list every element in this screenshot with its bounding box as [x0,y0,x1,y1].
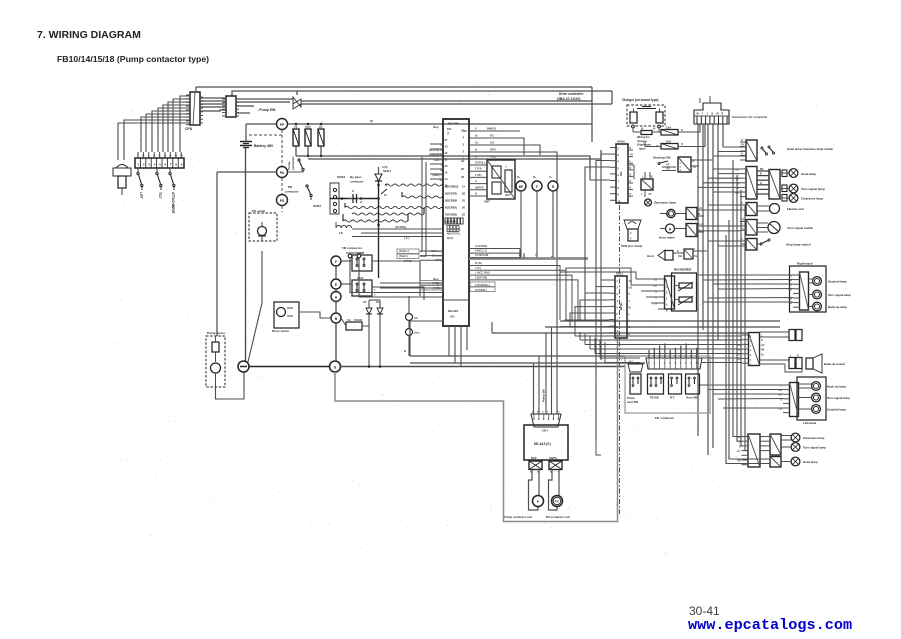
lamp stop-tail R [813,277,822,286]
wire pump motor lead [216,172,218,336]
svg-text:PS mode: PS mode [252,209,266,213]
svg-text:Bw: Bw [557,412,561,414]
wire bundle v9 [740,190,743,446]
svg-text:Back-up lamp: Back-up lamp [827,385,846,389]
svg-text:(SCR5K): (SCR5K) [395,225,406,229]
stop lamp switch [760,243,762,245]
wire [410,321,443,356]
coil wavy3 [345,206,443,208]
charger part2 [656,112,663,123]
device CF [406,314,413,321]
DH pins left [610,147,616,149]
wire [195,87,197,92]
wire harness CPU-left [180,96,190,152]
wire bus [560,320,780,322]
svg-text:5(SCR3)B: 5(SCR3)B [445,199,457,203]
FR switch RF [669,374,682,394]
svg-text:Br: Br [384,193,387,197]
svg-text:W(REO: W(REO [475,185,484,189]
wire [591,87,593,142]
wire [644,172,646,179]
svg-text:PP: PP [280,123,285,127]
svg-text:Y (F): Y (F) [475,266,481,270]
wire bundle v1 [697,124,699,436]
contactor PP [277,119,288,130]
svg-text:Back-up lamp: Back-up lamp [828,305,847,309]
svg-text:Clearance lamp: Clearance lamp [803,436,825,440]
wire [430,143,443,145]
wire bundle v8 [737,175,742,441]
svg-text:F: F [536,185,538,189]
svg-text:1T(E): 1T(E) [475,173,482,177]
svg-text:By-pass: By-pass [350,175,362,179]
contact box MCF [352,255,372,271]
svg-text:Flasher unit: Flasher unit [787,207,804,211]
svg-text:L6: L6 [339,231,343,235]
connector CN1 [531,414,561,427]
wire bus [575,335,742,337]
svg-text:→Pump SW.: →Pump SW. [256,108,276,112]
wire [519,249,521,259]
terminal G [330,361,341,372]
svg-text:CF: CF [414,316,418,320]
wire [200,110,226,111]
wire [538,470,540,497]
svg-text:ATTACHMENT: ATTACHMENT [171,192,175,214]
wire [596,440,601,455]
svg-text:7(SCR2B): 7(SCR2B) [445,213,457,217]
svg-text:9(X2): 9(X2) [447,236,453,240]
svg-text:BP(W): BP(W) [617,140,625,144]
lamp head B [791,457,800,466]
pcb box [628,229,638,241]
relay starting [678,157,691,172]
svg-text:TILT: TILT [158,192,162,199]
svg-text:Accelerator: Accelerator [674,268,692,272]
svg-text:SCR3: SCR3 [337,175,345,179]
svg-text:Pump SW.: Pump SW. [542,389,546,402]
wire [341,260,352,262]
svg-text:D2: D2 [363,300,367,304]
svg-text:GB: GB [629,287,633,290]
svg-text:Head lamp clearance lamp swi: Head lamp clearance lamp switch [787,147,833,151]
wire [301,100,592,102]
svg-text:Horn: Horn [647,254,654,258]
wire [760,331,790,333]
lamp clearance B [791,433,800,442]
svg-text:YB: YB [629,280,633,283]
contact [306,185,308,187]
svg-text:B: B [475,155,477,159]
svg-text:B: B [741,153,743,156]
svg-text:9(SCR3K)2: 9(SCR3K)2 [445,185,459,189]
wire [469,164,487,166]
svg-text:M(SCR7A): M(SCR7A) [447,231,460,235]
wire into IC [352,228,443,230]
wire negative bus [245,148,247,361]
svg-text:contactor: contactor [350,180,365,184]
IC bottom labels [443,299,469,301]
svg-text:D: D [630,180,632,183]
wire [648,350,650,358]
svg-text:Ov: Ov [475,141,479,145]
wire [236,98,293,100]
box accelerator [672,273,697,311]
wire [200,106,226,108]
svg-text:ISP1: ISP1 [490,148,497,152]
svg-text:LIFT: LIFT [139,192,143,199]
wire [232,91,612,96]
wire [549,470,558,511]
connector CPU [190,92,200,125]
IC main controller [443,119,469,326]
wire [196,86,592,88]
svg-text:B+: B+ [517,175,521,179]
lamp backup R [813,302,822,311]
wire [780,172,789,174]
wire [633,165,635,179]
lamp head [782,170,787,177]
lamp backup L [812,382,821,391]
svg-text:MCR: MCR [357,276,363,280]
connector bottom pair [748,434,760,467]
wire bus [545,326,780,328]
svg-text:Operation lamp: Operation lamp [654,201,676,205]
terminal E [331,279,341,289]
meter BC [667,209,675,217]
svg-text:W (R): W (R) [475,261,482,265]
wire bus [410,362,645,364]
wire [596,161,610,441]
terminal minus [238,361,249,372]
accel pot1 [679,283,692,288]
svg-text:CN 1: CN 1 [542,429,548,433]
svg-text:B: B [630,187,632,190]
svg-text:DF: DF [319,125,323,129]
svg-text:Turn signal lamp: Turn signal lamp [828,293,851,297]
connector DH [616,144,628,203]
lamp turn1 [782,185,787,192]
box Right-back [790,266,827,312]
svg-text:KE-A13 (C): KE-A13 (C) [534,442,551,446]
wire [698,384,783,386]
svg-text:PS SW.: PS SW. [650,396,660,400]
wire [124,120,190,160]
backup buzzer [789,358,795,369]
svg-text:23: 23 [464,129,468,133]
wire [745,205,748,451]
terminal F [331,256,341,266]
turnsw box [746,220,757,236]
wire [378,181,380,278]
svg-text:B+: B+ [533,175,537,179]
coil wavy1 [385,184,443,186]
switch TILT [156,168,158,172]
svg-text:Turn signal lamp: Turn signal lamp [801,187,825,191]
svg-text:YR: YR [666,164,670,167]
motor M2 [277,308,286,317]
connector left-back [790,383,799,417]
wire [729,220,760,459]
connector pins [330,183,339,214]
lamp turn R [813,290,822,299]
wire main [249,366,330,368]
charger part1 [630,112,637,123]
buzzer blocks top [789,330,795,341]
wire [648,350,650,358]
wire [601,154,610,360]
svg-text:Stop lamp switch: Stop lamp switch [786,243,811,247]
wire [341,366,626,368]
wire dashdot [619,205,621,514]
wire bundle v3 [707,124,709,455]
relay CNT [487,160,515,199]
connector bottom 2 [770,434,781,455]
box Left-back [797,377,826,420]
inductor L6 [336,225,352,228]
wire [200,97,226,99]
svg-text:Wiring for: Wiring for [637,135,650,139]
svg-text:C+: C+ [549,175,553,179]
svg-text:5Ω: 5Ω [347,318,351,322]
svg-text:6(SCR1R): 6(SCR1R) [445,192,457,196]
svg-text:Stop/tail lamp: Stop/tail lamp [828,280,847,284]
wire IF1 [480,138,524,155]
svg-text:RY: RY [741,144,745,147]
meter H [666,224,675,233]
svg-text:PCB (for drive): PCB (for drive) [621,244,642,248]
svg-text:B: B [404,349,406,353]
gate arrow [381,189,387,194]
DH pins right [628,149,633,151]
contactor PA [277,167,288,178]
wire [632,128,634,132]
svg-text:Turn signal lamp: Turn signal lamp [827,396,850,400]
connector lamp R [769,170,780,200]
switch starting [660,161,668,163]
IC right upper pins [469,130,480,132]
svg-text:0 MCC+1): 0 MCC+1) [475,249,487,253]
svg-text:Drive motor: Drive motor [272,329,290,333]
svg-text:B: B [629,333,631,336]
wire [574,330,576,336]
svg-text:R: R [360,200,362,204]
svg-text:OUTH) L: OUTH) L [475,161,486,165]
wire [299,312,331,318]
wire bus [492,332,749,334]
svg-text:FSL): FSL) [490,155,496,159]
wire [698,274,793,276]
motor M [211,363,221,373]
flasher box [746,203,757,216]
thyristor SCR1 [375,174,382,181]
svg-text:(Start-): (Start-) [399,254,408,258]
meter F [532,181,542,191]
wire [529,470,539,511]
wire [469,266,560,321]
contact [298,159,300,161]
svg-text:101: 101 [447,127,452,131]
wire [699,98,701,103]
svg-text:Ba1: Ba1 [678,255,683,258]
wire [408,296,410,314]
wire bundle v4 [712,124,714,160]
svg-text:Hour meter: Hour meter [659,236,676,240]
svg-text:(3BA-47-21110): (3BA-47-21110) [557,97,580,101]
IC inner comb [445,218,448,224]
wire [308,150,601,159]
wire bundle v5 [717,124,719,340]
svg-text:G: G [629,326,631,329]
svg-text:Horn SW.: Horn SW. [686,396,698,400]
svg-text:Ch MCC2B: Ch MCC2B [475,253,489,257]
svg-text:9(6SCR3K): 9(6SCR3K) [447,227,461,231]
connector CN-B [226,96,236,117]
svg-text:G: G [760,183,762,185]
wire stubs [137,152,139,158]
bowtie contact [293,97,301,109]
wire [217,171,277,173]
svg-text:(Start+): (Start+) [399,249,409,253]
svg-text:B: B [630,167,632,170]
svg-text:RB: RB [737,461,741,463]
wire bus [410,355,646,357]
wire [380,282,443,284]
lamp stoptail L [812,405,821,414]
svg-text:SCR1: SCR1 [383,169,391,173]
svg-text:GR: GR [779,390,783,392]
BPL pins [609,279,615,281]
accel pot2 [679,297,692,302]
svg-text:Right-back: Right-back [797,262,813,266]
wire [236,112,250,114]
resistor 500ohm [346,322,362,330]
junction [295,123,298,126]
FR switch PS [648,374,664,394]
svg-text:Power: Power [627,396,635,400]
wire [341,318,346,326]
svg-text:KE-624: KE-624 [448,309,459,313]
connector FR pins [348,254,352,258]
svg-text:B: B [475,192,477,196]
wire [372,287,424,300]
fuse PF [293,129,299,146]
meter BP [516,181,526,191]
svg-text:D1: D1 [376,300,380,304]
svg-text:IA1: IA1 [490,141,495,145]
wire [708,204,740,206]
svg-text:Head lamp: Head lamp [803,460,818,464]
svg-text:F: F [335,260,337,264]
capacitor C [352,194,354,203]
connector right-back [800,272,809,310]
svg-text:NCP: NCP [531,456,537,460]
svg-text:contactor: contactor [285,190,300,194]
relay H [686,224,697,237]
terminal B [331,313,341,323]
svg-text:Pump contactor coil: Pump contactor coil [504,515,532,519]
junction [377,184,380,187]
wire [420,250,443,252]
wire IA1 [480,145,540,155]
wire [699,159,713,161]
wire [295,146,297,156]
wire bundle v6 [722,124,724,147]
svg-text:W: W [370,119,373,123]
svg-text:type): type) [639,146,646,150]
svg-text:Br: Br [475,134,478,138]
coil wavy2 [402,196,443,198]
svg-text:CPU: CPU [185,127,193,131]
wire thick bus [469,257,588,260]
wire [420,251,422,253]
svg-text:G: G [542,412,544,414]
box charger [627,105,665,126]
svg-text:Turn signal switch: Turn signal switch [787,226,813,230]
contacts [761,147,763,149]
resistor charger [641,131,652,135]
connector bottom 3 [770,457,781,468]
wire [533,363,535,414]
svg-text:G: G [334,365,337,369]
wire [372,261,420,296]
svg-text:(PTC): (PTC) [404,259,412,263]
svg-text:BMEV): BMEV) [487,127,496,131]
svg-text:R F: R F [670,396,675,400]
svg-text:start SW.: start SW. [627,400,639,404]
svg-text:2(OT: 2(OT [505,194,511,197]
svg-text:Back-up buzzer: Back-up buzzer [824,362,846,366]
svg-text:500ΩR: 500ΩR [354,318,362,322]
wire [708,209,740,211]
svg-text:B: B [630,147,632,150]
box Pump motor [206,336,225,387]
svg-text:L MCC 2W(): L MCC 2W() [475,271,490,275]
wire [200,100,226,102]
svg-text:0 SCRVB): 0 SCRVB) [475,244,487,248]
wire [200,103,226,105]
wire [713,168,740,170]
fuse 15A [661,130,678,136]
box Drive motor [274,302,299,328]
coil P [533,496,544,507]
svg-text:GR: GR [789,289,793,291]
svg-text:Connector for converter: Connector for converter [732,115,768,119]
relay lamp box [641,179,653,190]
switch head clearance [746,140,757,161]
IC KE-A13 [524,425,568,460]
svg-text:RG: RG [760,169,764,171]
stopsw box [746,239,757,251]
wire BMEV [480,130,520,132]
lamp turn B [791,443,800,452]
svg-text:Key: Key [433,125,439,129]
svg-text:www.epcatalogs.com: www.epcatalogs.com [688,616,852,634]
wire [723,146,746,148]
wire [585,167,610,320]
wire [236,105,254,107]
svg-text:RB: RB [761,350,765,352]
svg-text:8(SCR2K): 8(SCR2K) [445,220,457,224]
svg-text:PS: PS [280,199,285,203]
wire bundle v2 [702,124,704,330]
wire [558,470,560,497]
FR switch horn [686,374,700,394]
link dashdot [281,130,283,166]
connector mid pair [749,333,760,366]
svg-text:6(SCR5K): 6(SCR5K) [445,206,457,210]
wire [678,124,705,147]
